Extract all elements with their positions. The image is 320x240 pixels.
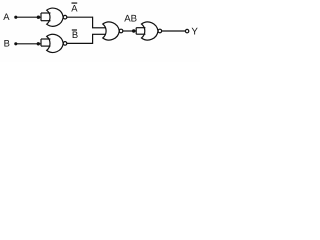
gate 4 input split bar bbox=[135, 28, 137, 35]
gate 1 input split bar bbox=[40, 13, 42, 21]
wire gate 4 output to terminal bbox=[162, 30, 186, 32]
node Y label bbox=[191, 27, 198, 38]
wire A to gate 1 split bbox=[16, 16, 41, 18]
wire gate 2 output vertical up bbox=[92, 34, 94, 44]
gate 1 input stub bottom bbox=[41, 20, 51, 22]
NOR gate U3 bbox=[103, 22, 120, 40]
net label A-bar bbox=[71, 2, 78, 13]
NOR gate U1 (inverter for A) bbox=[47, 8, 64, 26]
NOR gate U2 (inverter for B) bbox=[47, 34, 64, 52]
svg-text:A: A bbox=[71, 2, 78, 13]
net label AB bbox=[124, 14, 137, 25]
net label B-bar bbox=[72, 29, 78, 40]
svg-text:AB: AB bbox=[124, 14, 137, 25]
wire into gate 3 lower input bbox=[92, 33, 106, 35]
net label B-bar overline bbox=[72, 29, 77, 31]
wire gate 2 output horizontal bbox=[67, 42, 93, 44]
input terminal dot B bbox=[14, 42, 17, 45]
gate 4 input stub bottom bbox=[136, 33, 145, 35]
gate 4 output bubble bbox=[158, 29, 162, 33]
wire B to gate 2 split bbox=[16, 43, 41, 45]
gate 2 input stub bottom bbox=[41, 45, 50, 47]
svg-text:B: B bbox=[4, 38, 10, 49]
svg-text:A: A bbox=[3, 11, 10, 22]
output terminal circle bbox=[185, 29, 188, 32]
gate 4 input stub top bbox=[136, 27, 145, 29]
gate 1 output bubble bbox=[63, 15, 67, 19]
gate 3 output bubble bbox=[119, 29, 123, 33]
net label A-bar overline bbox=[72, 2, 78, 4]
input terminal dot A bbox=[14, 16, 17, 19]
wire gate 3 output bbox=[123, 30, 136, 32]
gate 2 input stub top bbox=[41, 38, 50, 40]
NOR gate U4 (inverter for AB) bbox=[142, 22, 159, 40]
junction dot A split bbox=[37, 16, 40, 19]
junction dot B split bbox=[37, 42, 40, 45]
wire into gate 3 upper input bbox=[92, 27, 106, 29]
junction dot AB split bbox=[132, 29, 135, 32]
svg-text:B: B bbox=[72, 29, 78, 40]
svg-text:Y: Y bbox=[191, 27, 198, 38]
wire gate 1 output horizontal bbox=[67, 16, 93, 18]
gate 2 input split bar bbox=[40, 39, 42, 46]
gate 2 output bubble bbox=[63, 42, 67, 46]
gate 1 input stub top bbox=[41, 12, 51, 14]
node A label bbox=[3, 11, 10, 22]
node B label bbox=[4, 38, 10, 49]
wire gate 1 output vertical down bbox=[92, 17, 94, 28]
